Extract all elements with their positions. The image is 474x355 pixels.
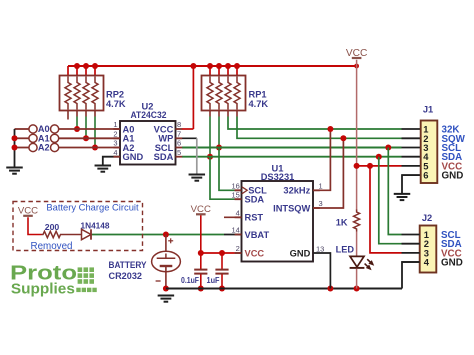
svg-text:GND: GND xyxy=(441,258,463,269)
svg-text:13: 13 xyxy=(316,244,324,253)
svg-text:GND: GND xyxy=(123,152,144,162)
svg-text:BATTERY: BATTERY xyxy=(109,260,147,270)
svg-text:SDA: SDA xyxy=(154,152,174,162)
svg-text:15: 15 xyxy=(231,190,239,199)
svg-text:5: 5 xyxy=(177,148,181,157)
svg-text:RP1: RP1 xyxy=(249,90,267,100)
svg-text:1: 1 xyxy=(113,120,117,129)
svg-text:INTSQW: INTSQW xyxy=(273,203,310,213)
svg-text:Removed: Removed xyxy=(31,241,73,252)
svg-text:AT24C32: AT24C32 xyxy=(131,110,167,120)
svg-text:1N4148: 1N4148 xyxy=(81,221,110,231)
svg-text:2: 2 xyxy=(113,130,117,139)
svg-text:J1: J1 xyxy=(423,105,433,115)
svg-text:2: 2 xyxy=(236,244,240,253)
svg-text:SDA: SDA xyxy=(245,195,265,205)
svg-text:0.1uF: 0.1uF xyxy=(181,275,199,285)
svg-text:RST: RST xyxy=(245,213,264,223)
svg-text:16: 16 xyxy=(231,182,239,191)
svg-text:1: 1 xyxy=(319,182,323,191)
svg-text:GND: GND xyxy=(290,248,311,258)
svg-text:GND: GND xyxy=(442,171,464,182)
svg-text:32kHz: 32kHz xyxy=(283,186,310,196)
svg-text:Battery Charge Circuit: Battery Charge Circuit xyxy=(46,202,139,213)
svg-text:Supplies: Supplies xyxy=(11,282,75,298)
svg-text:3: 3 xyxy=(113,139,117,148)
svg-text:200: 200 xyxy=(45,222,60,232)
svg-text:VBAT: VBAT xyxy=(245,230,270,240)
svg-text:A2: A2 xyxy=(38,143,50,153)
svg-text:3: 3 xyxy=(319,199,323,208)
svg-text:VCC: VCC xyxy=(245,248,265,258)
svg-text:4.7K: 4.7K xyxy=(106,99,126,109)
svg-text:4.7K: 4.7K xyxy=(249,99,269,109)
svg-text:J2: J2 xyxy=(422,213,432,223)
svg-text:14: 14 xyxy=(231,226,239,235)
svg-text:1uF: 1uF xyxy=(207,275,220,285)
svg-text:8: 8 xyxy=(177,120,181,129)
svg-text:4: 4 xyxy=(424,257,430,268)
svg-text:7: 7 xyxy=(177,130,181,139)
svg-text:DS3231: DS3231 xyxy=(261,172,295,182)
svg-text:6: 6 xyxy=(177,139,181,148)
svg-text:6: 6 xyxy=(423,170,428,181)
svg-text:4: 4 xyxy=(236,209,240,218)
svg-text:4: 4 xyxy=(113,148,117,157)
svg-text:CR2032: CR2032 xyxy=(109,271,143,281)
svg-text:LED: LED xyxy=(336,244,355,254)
svg-text:RP2: RP2 xyxy=(106,90,124,100)
svg-text:1K: 1K xyxy=(336,217,348,227)
